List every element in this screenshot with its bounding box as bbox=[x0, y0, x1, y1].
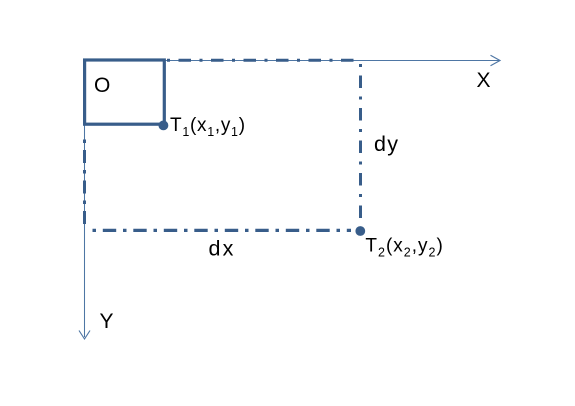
svg-text:Y: Y bbox=[100, 310, 114, 333]
svg-text:O: O bbox=[94, 74, 110, 97]
svg-text:dx: dx bbox=[209, 237, 236, 261]
svg-text:X: X bbox=[477, 69, 491, 92]
svg-text:dy: dy bbox=[374, 132, 399, 156]
